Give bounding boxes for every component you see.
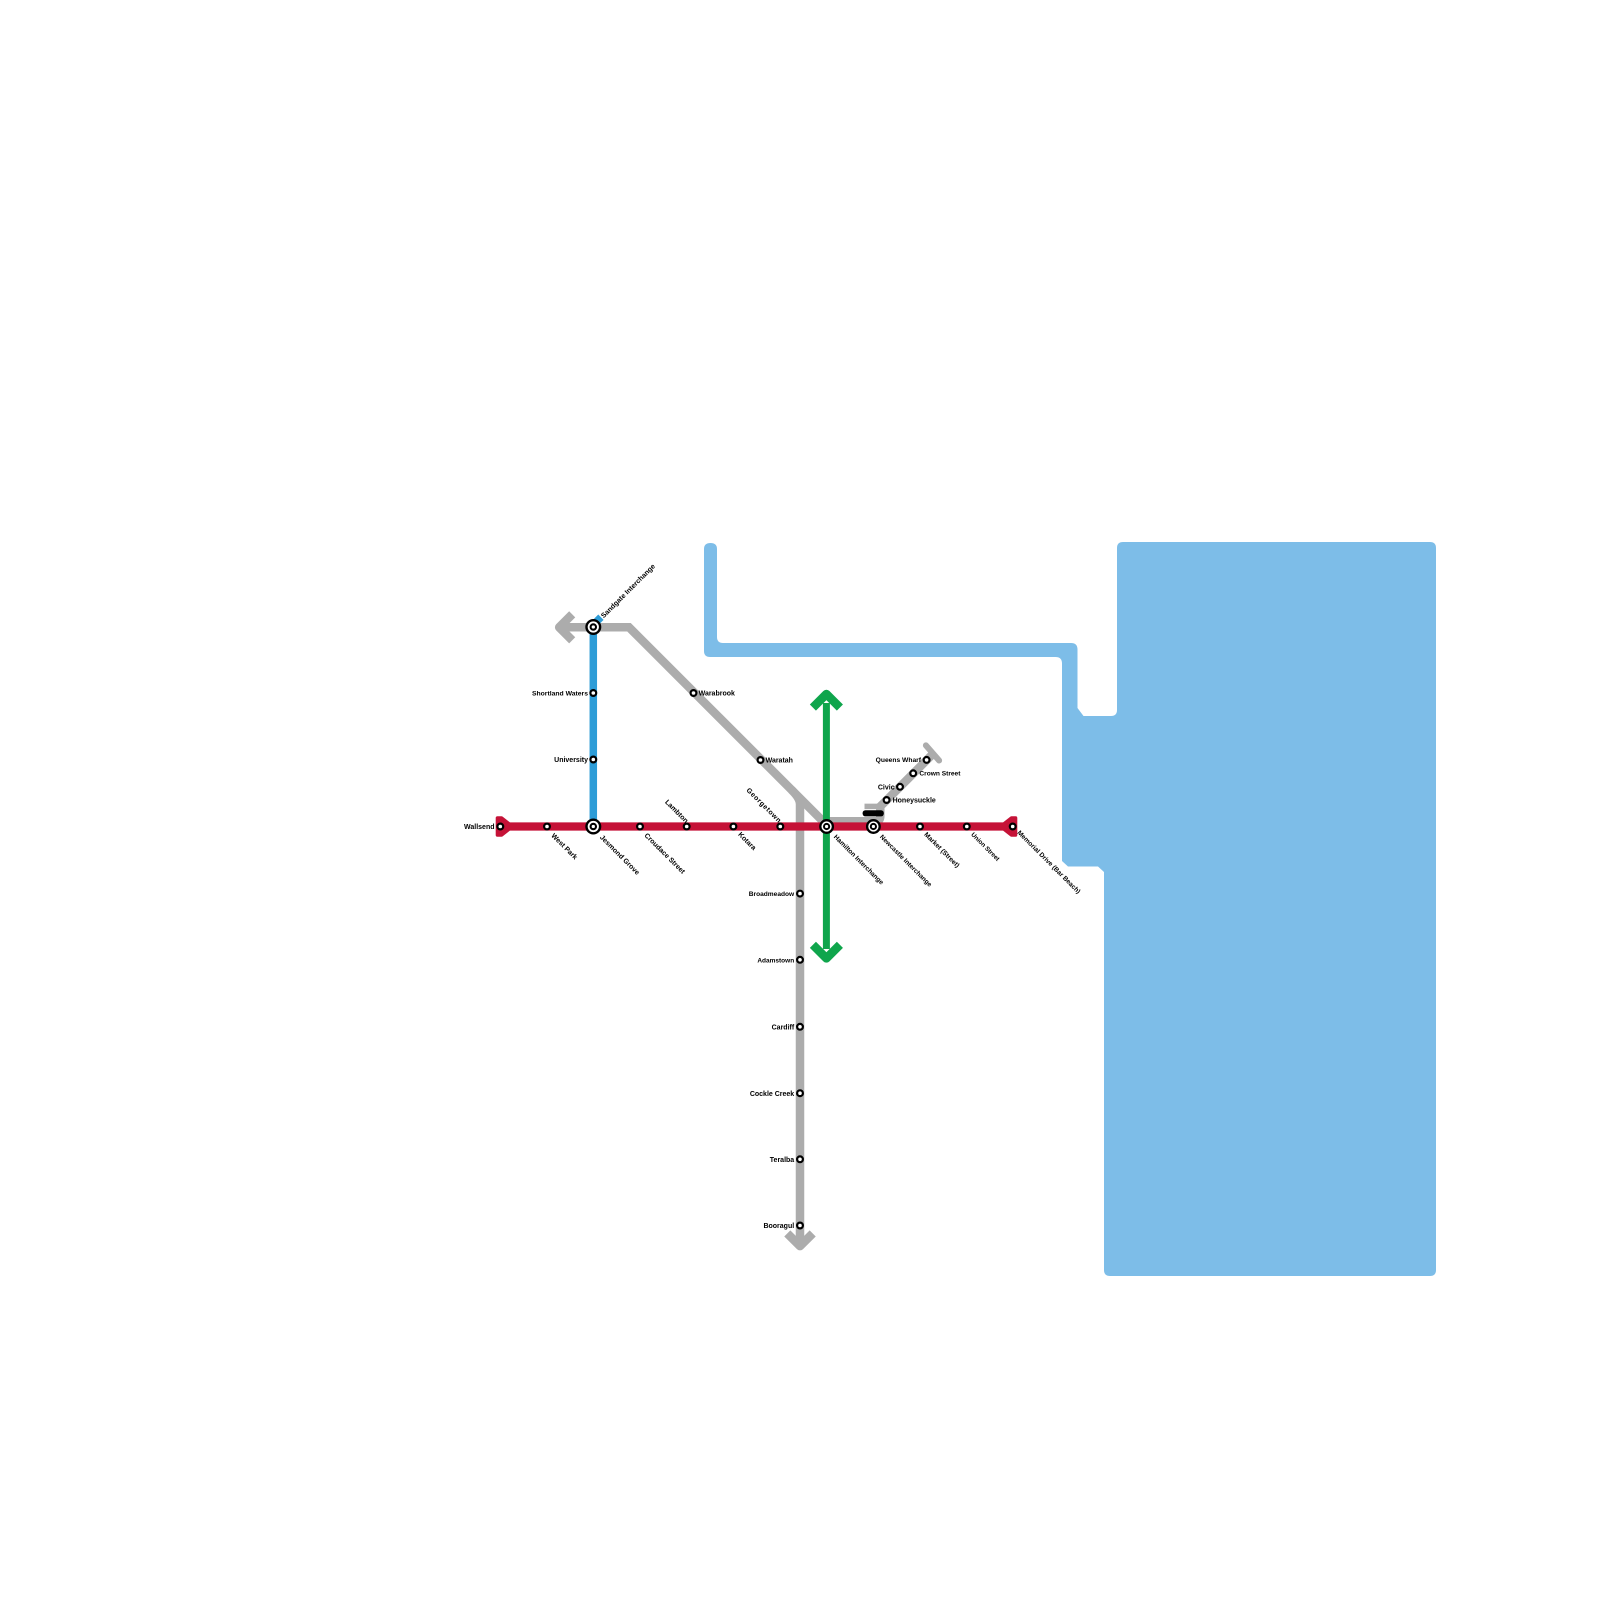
station Memorial Drive [1010, 824, 1016, 830]
red line [505, 822, 1008, 830]
station Queens Wharf [924, 757, 930, 763]
station Market Street [917, 824, 923, 830]
green arrow south [813, 945, 840, 959]
svg-text:Lambton: Lambton [663, 799, 689, 825]
grey south branch [792, 790, 801, 1244]
svg-text:Booragul: Booragul [763, 1223, 794, 1230]
blue line [593, 617, 601, 826]
station Waratah [758, 757, 764, 763]
station Warabrook [691, 690, 697, 696]
svg-text:Newcastle Interchange: Newcastle Interchange [878, 834, 933, 889]
water: harbour channel + ocean [704, 542, 1436, 1276]
svg-text:Queens Wharf: Queens Wharf [876, 757, 922, 764]
svg-text:Honeysuckle: Honeysuckle [893, 798, 936, 805]
svg-text:Cockle Creek: Cockle Creek [750, 1091, 794, 1098]
small stations: red line [497, 690, 1015, 1228]
svg-text:Warabrook: Warabrook [699, 691, 735, 698]
interchange Hamilton [820, 820, 833, 833]
svg-text:Hamilton Interchange: Hamilton Interchange [832, 834, 885, 887]
svg-text:Adamstown: Adamstown [757, 957, 794, 964]
station Jesmond Park [544, 824, 550, 830]
station Crown Street [910, 770, 916, 776]
svg-text:West Park: West Park [549, 833, 578, 862]
station Union Street [964, 824, 970, 830]
svg-text:Union Street: Union Street [969, 831, 1001, 863]
green line stem [823, 703, 830, 949]
svg-text:Broadmeadow: Broadmeadow [749, 891, 795, 898]
svg-text:Market (Street): Market (Street) [922, 831, 960, 869]
station Adamstown [797, 957, 803, 963]
depot spur [865, 804, 881, 810]
svg-text:Crown Street: Crown Street [919, 771, 961, 778]
depot black bar [863, 810, 884, 816]
station Civic [897, 784, 903, 790]
light rail terminus T-bar [926, 745, 939, 760]
svg-text:Civic: Civic [878, 784, 895, 791]
svg-text:Waratah: Waratah [766, 758, 793, 765]
svg-text:Teralba: Teralba [770, 1157, 794, 1164]
station Croudace Street [637, 824, 643, 830]
grey light rail through Newcastle Interchange to beach [827, 754, 933, 821]
station Booragul [797, 1223, 803, 1229]
green arrow north [813, 694, 840, 708]
svg-text:Wallsend: Wallsend [464, 824, 494, 831]
grey heavy rail: Sandgate - diagonal - to Hamilton [558, 627, 828, 821]
interchange Sandgate [587, 620, 601, 634]
station Georgetown [777, 824, 783, 830]
station Wallsend [497, 824, 503, 830]
red terminus arrow west (Wallsend) [498, 818, 509, 835]
svg-text:Sandgate Interchange: Sandgate Interchange [600, 563, 657, 620]
svg-text:Jesmond Grove: Jesmond Grove [598, 834, 640, 876]
station Cockle Creek [797, 1090, 803, 1096]
interchange Jesmond [587, 820, 601, 834]
grey arrow west (at Sandgate) [559, 614, 572, 640]
labels [464, 563, 1081, 1230]
svg-text:Shortland Waters: Shortland Waters [532, 691, 588, 698]
interchange Newcastle [867, 820, 880, 833]
svg-text:Kotara: Kotara [736, 831, 757, 852]
station Broadmeadow [797, 891, 803, 897]
station Kotara [731, 824, 737, 830]
station Lambton [684, 824, 690, 830]
svg-text:Croudace Street: Croudace Street [643, 832, 687, 876]
station University [590, 757, 596, 763]
svg-text:University: University [554, 757, 588, 764]
red terminus arrow east (Memorial Drive) [1005, 818, 1016, 835]
station Cardiff [797, 1024, 803, 1030]
svg-text:Georgetown: Georgetown [745, 787, 783, 825]
station Teralba [797, 1156, 803, 1162]
grey arrow south (below Booragul) [787, 1233, 812, 1246]
svg-text:Cardiff: Cardiff [772, 1024, 795, 1031]
station Shortland Waters [590, 690, 596, 696]
station Honeysuckle [884, 797, 890, 803]
